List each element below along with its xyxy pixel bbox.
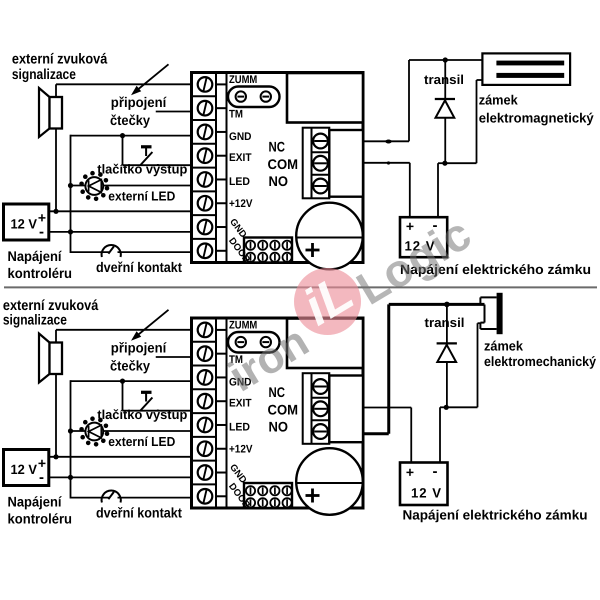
svg-text:externí zvuková: externí zvuková (3, 298, 99, 314)
svg-text:Napájení elektrického zámku: Napájení elektrického zámku (403, 508, 588, 523)
svg-text:-: - (433, 463, 438, 480)
svg-text:externí zvuková: externí zvuková (12, 52, 108, 68)
svg-text:+: + (406, 464, 414, 480)
svg-text:zámek: zámek (484, 338, 523, 353)
svg-text:zámek: zámek (479, 92, 518, 107)
svg-text:signalizace: signalizace (3, 313, 67, 329)
svg-text:signalizace: signalizace (12, 67, 76, 83)
svg-text:elektromechanický: elektromechanický (484, 354, 596, 369)
svg-text:transil: transil (424, 72, 464, 87)
svg-text:12 V: 12 V (411, 486, 442, 501)
svg-text:transil: transil (425, 315, 465, 330)
svg-text:elektromagnetický: elektromagnetický (479, 110, 594, 125)
